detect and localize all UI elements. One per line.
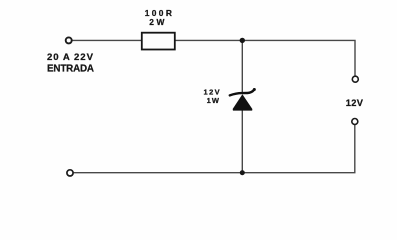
svg-text:12V: 12V bbox=[346, 98, 364, 108]
svg-text:ENTRADA: ENTRADA bbox=[47, 63, 94, 74]
svg-text:1W: 1W bbox=[207, 96, 220, 105]
svg-text:2W: 2W bbox=[149, 17, 164, 27]
svg-text:20 A 22V: 20 A 22V bbox=[47, 52, 94, 63]
